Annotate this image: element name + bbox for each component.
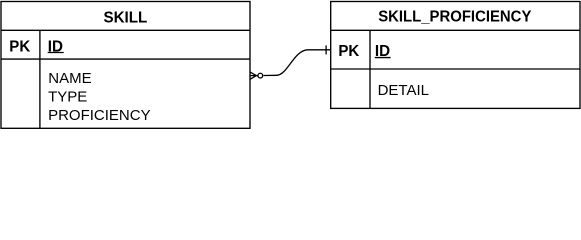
wire stub vertex-to-ring	[256, 75, 258, 77]
entity SKILL frame	[1, 2, 250, 129]
svg-text:PK: PK	[338, 43, 359, 60]
svg-text:PROFICIENCY: PROFICIENCY	[48, 107, 151, 124]
svg-text:SKILL: SKILL	[103, 10, 147, 27]
underline of ID (SKILL)	[48, 52, 64, 54]
one-cardinality tick at SKILL_PROFICIENCY	[325, 45, 327, 54]
relationship crow's foot (zero-or-many at SKILL)	[250, 72, 256, 79]
svg-text:DETAIL: DETAIL	[378, 82, 429, 99]
wire relationship curve	[263, 50, 330, 76]
svg-text:TYPE: TYPE	[48, 89, 87, 106]
svg-text:SKILL_PROFICIENCY: SKILL_PROFICIENCY	[378, 8, 531, 25]
relationship ring (zero marker)	[258, 73, 263, 78]
entity SKILL_PROFICIENCY frame	[331, 2, 580, 109]
svg-text:PK: PK	[9, 38, 30, 55]
svg-text:NAME: NAME	[48, 70, 91, 87]
underline of ID (SKILL_PROFICIENCY)	[375, 57, 391, 59]
